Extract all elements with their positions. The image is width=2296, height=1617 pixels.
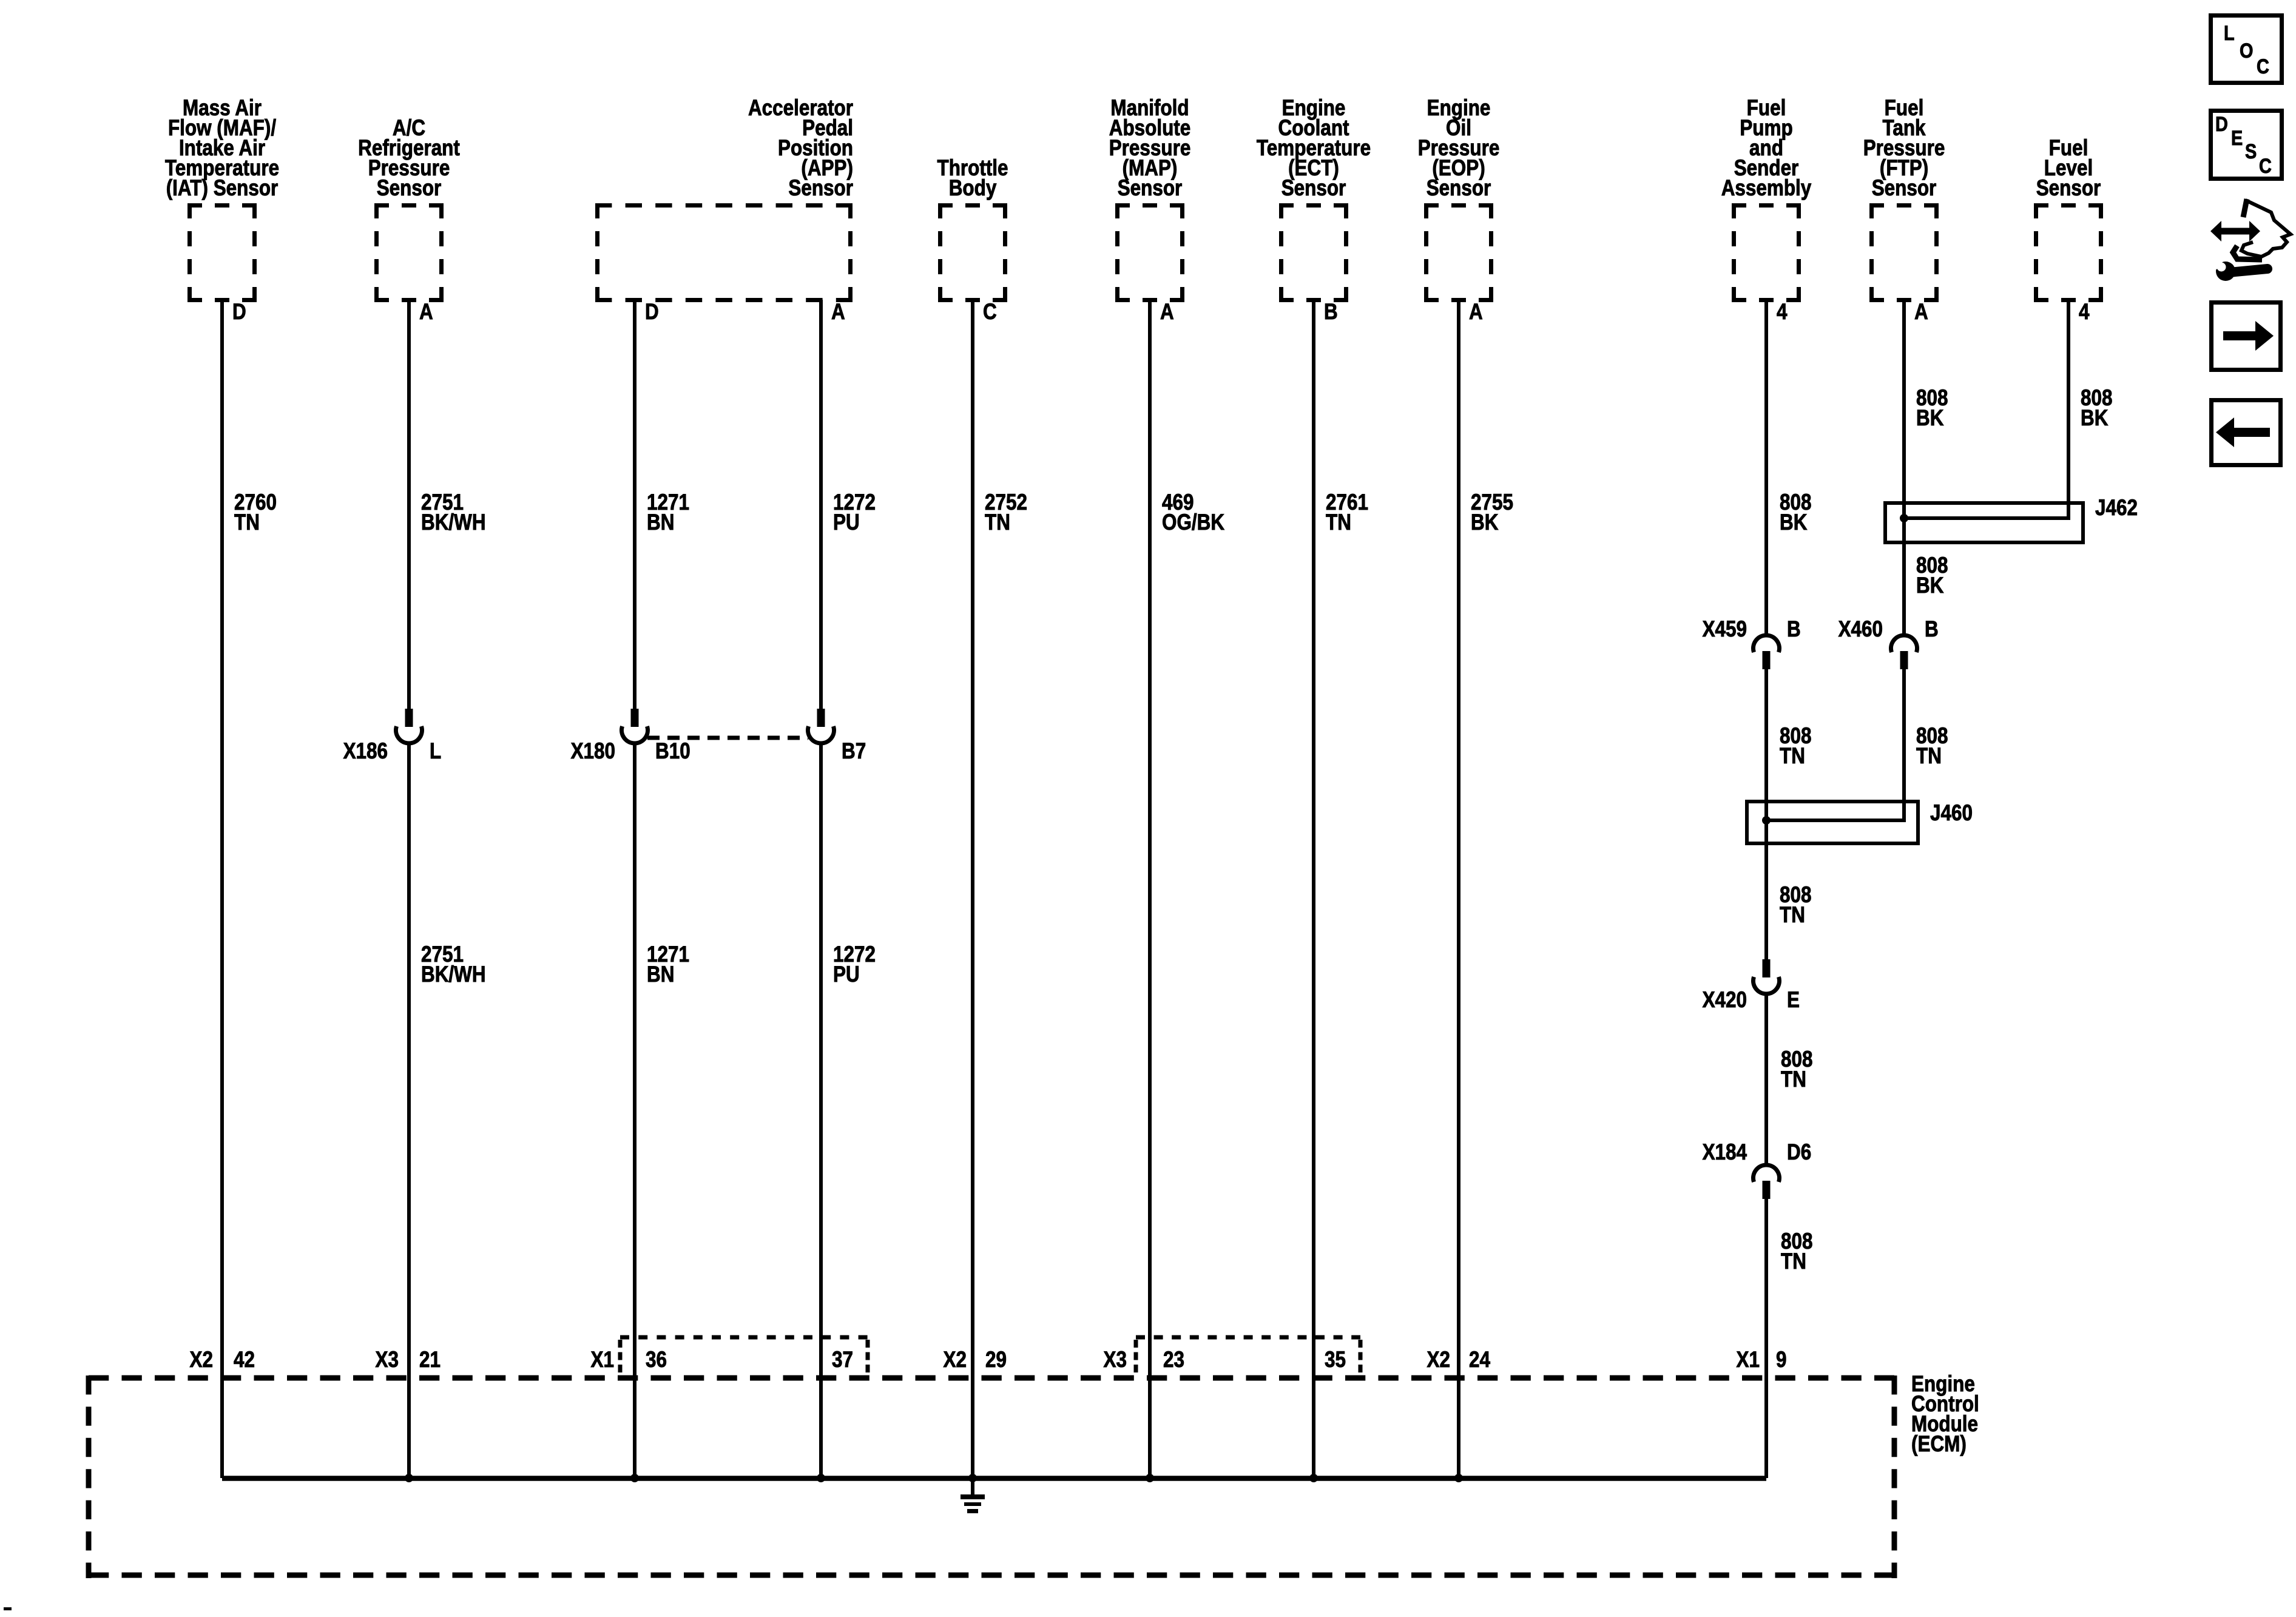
- wire 1272 PU lower segment from X180 to ECM pin 37: [819, 741, 823, 1478]
- inline connector X420 terminal E: [1763, 959, 1771, 977]
- svg-text:O: O: [2240, 39, 2253, 62]
- svg-text:X3: X3: [1104, 1348, 1127, 1372]
- component EOP sensor (dashed box): [1424, 203, 1493, 208]
- component throttle body (dashed box): [938, 203, 1007, 208]
- svg-text:B10: B10: [655, 739, 690, 764]
- svg-text:A: A: [419, 300, 433, 325]
- svg-text:37: 37: [832, 1348, 853, 1372]
- component FTP sensor (dashed box): [1869, 203, 1939, 208]
- svg-text:D: D: [232, 300, 246, 325]
- svg-text:B: B: [1787, 617, 1801, 642]
- wire 469 OG/BK from MAP pin A to ECM pin 23: [1148, 300, 1152, 1478]
- svg-text:BK/WH: BK/WH: [421, 510, 486, 535]
- svg-text:X1: X1: [1737, 1348, 1760, 1372]
- svg-text:TN: TN: [1780, 744, 1805, 769]
- svg-text:TN: TN: [1916, 744, 1942, 769]
- svg-text:TN: TN: [1326, 510, 1351, 535]
- svg-text:24: 24: [1469, 1348, 1490, 1372]
- junction dot at pin 35 wire: [1309, 1474, 1318, 1482]
- svg-text:X3: X3: [376, 1348, 399, 1372]
- wire 2752 TN from throttle body pin C to ECM pin 29: [971, 300, 974, 1478]
- icon DESC box: [2211, 111, 2282, 179]
- svg-text:42: 42: [234, 1348, 255, 1372]
- svg-text:E: E: [1787, 988, 1800, 1013]
- wire 1271 BN lower segment from X180 to ECM pin 36: [633, 741, 636, 1478]
- wire 1272 PU upper segment from APP pin A to X180 B7: [819, 300, 823, 709]
- wire 2755 BK from EOP pin A to ECM pin 24: [1457, 300, 1460, 1478]
- svg-text:C: C: [2257, 55, 2269, 78]
- junction dot at pin 36 wire: [630, 1474, 639, 1482]
- wire 808 TN from X460 into splice J460: [1766, 669, 1904, 820]
- svg-text:A: A: [1160, 300, 1174, 325]
- svg-text:TN: TN: [985, 510, 1010, 535]
- svg-text:B7: B7: [842, 739, 866, 764]
- svg-text:J460: J460: [1930, 801, 1973, 826]
- svg-text:X1: X1: [591, 1348, 614, 1372]
- svg-text:Sensor: Sensor: [2036, 176, 2101, 201]
- internal ECM bus wire: [222, 1476, 1766, 1481]
- svg-text:A: A: [1469, 300, 1483, 325]
- svg-text:(ECM): (ECM): [1911, 1432, 1967, 1457]
- svg-text:OG/BK: OG/BK: [1162, 510, 1224, 535]
- stray mark bottom left: [4, 1607, 12, 1610]
- inline connector X460 terminal B: [1891, 635, 1917, 652]
- svg-text:4: 4: [1777, 300, 1787, 325]
- svg-text:Sensor: Sensor: [377, 176, 442, 201]
- svg-text:S: S: [2245, 140, 2257, 163]
- wire 2760 TN from MAF pin D to ECM pin 42: [220, 300, 224, 1478]
- svg-text:E: E: [2231, 126, 2243, 150]
- svg-text:X2: X2: [944, 1348, 967, 1372]
- wire 2761 TN from ECT pin B to ECM pin 35: [1312, 300, 1315, 1478]
- svg-text:X2: X2: [190, 1348, 213, 1372]
- ground symbol inside ECM: [971, 1478, 974, 1496]
- svg-text:TN: TN: [234, 510, 260, 535]
- ECM dashed box (Engine Control Module): [89, 1376, 1894, 1381]
- svg-text:D6: D6: [1787, 1140, 1811, 1165]
- svg-text:29: 29: [985, 1348, 1007, 1372]
- svg-text:B: B: [1324, 300, 1338, 325]
- svg-text:Sensor: Sensor: [1427, 176, 1491, 201]
- svg-text:X186: X186: [343, 739, 388, 764]
- svg-text:9: 9: [1776, 1348, 1786, 1372]
- svg-text:Sensor: Sensor: [1872, 176, 1937, 201]
- component MAF/IAT sensor (dashed box): [187, 203, 257, 208]
- junction dot at pin 29 wire: [968, 1474, 977, 1482]
- splice J460 box: [1747, 802, 1918, 843]
- inline connector X184 terminal D6: [1754, 1165, 1780, 1182]
- svg-text:BK: BK: [1916, 406, 1944, 431]
- svg-text:BN: BN: [647, 962, 674, 987]
- wire 808 BK from FTP sensor pin A to splice J462: [1902, 300, 1906, 636]
- svg-text:BK/WH: BK/WH: [421, 962, 486, 987]
- wire 808 TN from X420 to X184: [1764, 992, 1768, 1166]
- junction dot at pin 24 wire: [1454, 1474, 1463, 1482]
- svg-text:D: D: [645, 300, 659, 325]
- svg-text:PU: PU: [833, 510, 860, 535]
- svg-text:TN: TN: [1780, 903, 1805, 928]
- svg-text:Body: Body: [949, 176, 997, 201]
- svg-text:BK: BK: [1471, 510, 1499, 535]
- svg-text:21: 21: [419, 1348, 441, 1372]
- svg-text:4: 4: [2079, 300, 2089, 325]
- svg-text:X460: X460: [1838, 617, 1883, 642]
- wire 808 BK from fuel level sensor pin 4 into splice J462: [1904, 300, 2068, 518]
- svg-text:BN: BN: [647, 510, 674, 535]
- svg-text:Sensor: Sensor: [788, 176, 853, 201]
- wire 1271 BN upper segment from APP pin D to X180 B10: [633, 300, 636, 709]
- svg-text:A: A: [831, 300, 845, 325]
- component fuel level sensor (dashed box): [2034, 203, 2103, 208]
- junction dot at pin 21 wire: [405, 1474, 413, 1482]
- inline connector X186 pin L: [405, 709, 413, 727]
- svg-text:C: C: [983, 300, 997, 325]
- dotted connector group box around ECM pins 36 and 37: [620, 1335, 868, 1340]
- svg-text:(IAT) Sensor: (IAT) Sensor: [166, 176, 279, 201]
- svg-text:B: B: [1925, 617, 1939, 642]
- svg-text:TN: TN: [1781, 1067, 1806, 1092]
- svg-text:L: L: [2224, 21, 2235, 45]
- component MAP sensor (dashed box): [1115, 203, 1184, 208]
- icon LOC box: [2211, 16, 2282, 83]
- junction dot in J460: [1762, 816, 1771, 825]
- svg-text:X420: X420: [1703, 988, 1747, 1013]
- svg-text:PU: PU: [833, 962, 860, 987]
- component fuel pump and sender assembly (dashed box): [1732, 203, 1801, 208]
- svg-text:D: D: [2215, 112, 2228, 136]
- inline connector X459 terminal B: [1754, 635, 1780, 652]
- svg-text:35: 35: [1325, 1348, 1346, 1372]
- icon forward arrow box: [2212, 303, 2281, 370]
- junction dot at pin 23 wire: [1146, 1474, 1154, 1482]
- svg-text:Assembly: Assembly: [1721, 176, 1812, 201]
- wire 808 TN from X184 to ECM pin 9: [1764, 1199, 1768, 1478]
- svg-text:J462: J462: [2095, 496, 2138, 521]
- icon tools/adjust (double arrow, outline, wrench): [2210, 221, 2260, 241]
- splice J462 box: [1885, 503, 2083, 542]
- component A/C refrigerant pressure sensor (dashed box): [374, 203, 444, 208]
- svg-text:BK: BK: [2081, 406, 2109, 431]
- wire 2751 BK/WH lower segment from X186 to ECM pin 21: [407, 741, 411, 1478]
- svg-text:X459: X459: [1703, 617, 1747, 642]
- svg-text:TN: TN: [1781, 1249, 1806, 1274]
- junction dot at pin 37 wire: [817, 1474, 825, 1482]
- svg-text:L: L: [430, 739, 441, 764]
- wire 2751 BK/WH upper segment from A/C pin A to X186: [407, 300, 411, 709]
- connector X180 dashed link between B10 and B7: [647, 736, 808, 740]
- svg-text:X184: X184: [1703, 1140, 1747, 1165]
- svg-text:X180: X180: [571, 739, 615, 764]
- svg-text:BK: BK: [1780, 510, 1808, 535]
- inline connector X180 terminal B10: [631, 709, 639, 727]
- component APP sensor (dashed box): [595, 203, 853, 208]
- junction dot in J462: [1900, 514, 1908, 522]
- svg-text:36: 36: [646, 1348, 667, 1372]
- dotted connector group box around ECM pins 23 and 35: [1136, 1335, 1360, 1340]
- svg-text:Sensor: Sensor: [1281, 176, 1346, 201]
- svg-text:A: A: [1914, 300, 1928, 325]
- svg-text:C: C: [2259, 154, 2272, 178]
- svg-text:BK: BK: [1916, 573, 1944, 598]
- component ECT sensor (dashed box): [1279, 203, 1348, 208]
- icon back arrow box: [2212, 400, 2281, 465]
- inline connector X180 terminal B7: [817, 709, 825, 727]
- svg-text:Sensor: Sensor: [1118, 176, 1183, 201]
- svg-text:23: 23: [1163, 1348, 1184, 1372]
- wire 808 BK from fuel pump pin 4 to X459: [1764, 300, 1768, 636]
- svg-text:X2: X2: [1427, 1348, 1450, 1372]
- wire 808 TN from X459 to splice J460: [1764, 669, 1768, 959]
